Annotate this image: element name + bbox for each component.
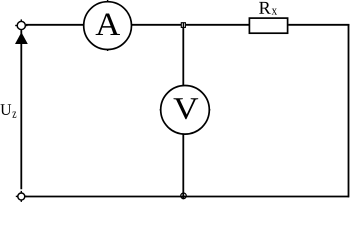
wire through node square (182, 22, 184, 27)
label Rx (259, 2, 277, 15)
label Uz (1, 104, 17, 117)
wire voltmeter top (182, 27, 184, 86)
wire top: node square to resistor (186, 24, 249, 26)
node square top junction (181, 23, 185, 28)
node circle bottom junction (181, 193, 187, 199)
voltmeter V1 (160, 86, 211, 135)
wire top-mid: ammeter to node square (132, 24, 182, 26)
arrow of source U_z (15, 32, 28, 44)
wire left vertical (20, 31, 22, 190)
wire bottom (26, 196, 349, 198)
ammeter A1 (84, 0, 132, 51)
terminal top-left (15, 19, 27, 31)
resistor Rx (249, 18, 287, 33)
wire top-right: resistor to corner (289, 24, 350, 26)
wire top-left: terminal to ammeter (26, 24, 84, 26)
terminal bottom-left (16, 191, 27, 202)
wire right vertical (348, 24, 350, 197)
wire voltmeter bottom (182, 134, 184, 199)
